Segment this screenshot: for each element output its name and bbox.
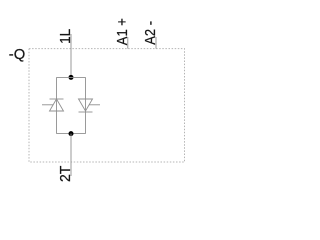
device outline -Q (dashed enclosure) — [29, 49, 185, 162]
wire: terminal stub A2- — [155, 37, 157, 49]
wire: left branch vertical — [56, 77, 58, 133]
thyristor V2 (right, conducting downward) — [79, 99, 101, 112]
wire: right branch vertical — [85, 77, 87, 133]
wire: bottom bar of parallel branch — [57, 133, 86, 135]
thyristor V1 (left, conducting upward) — [42, 99, 64, 111]
node: top junction — [69, 75, 74, 80]
wire: top bar of parallel branch — [57, 76, 86, 78]
node: bottom junction — [69, 131, 74, 136]
svg-text:1L: 1L — [58, 29, 75, 44]
svg-text:-Q: -Q — [9, 47, 25, 63]
wire: terminal stub A1+ — [127, 37, 129, 49]
wire: bottom node to terminal 2T — [70, 134, 72, 176]
wire: terminal 1L to top node — [70, 34, 72, 77]
